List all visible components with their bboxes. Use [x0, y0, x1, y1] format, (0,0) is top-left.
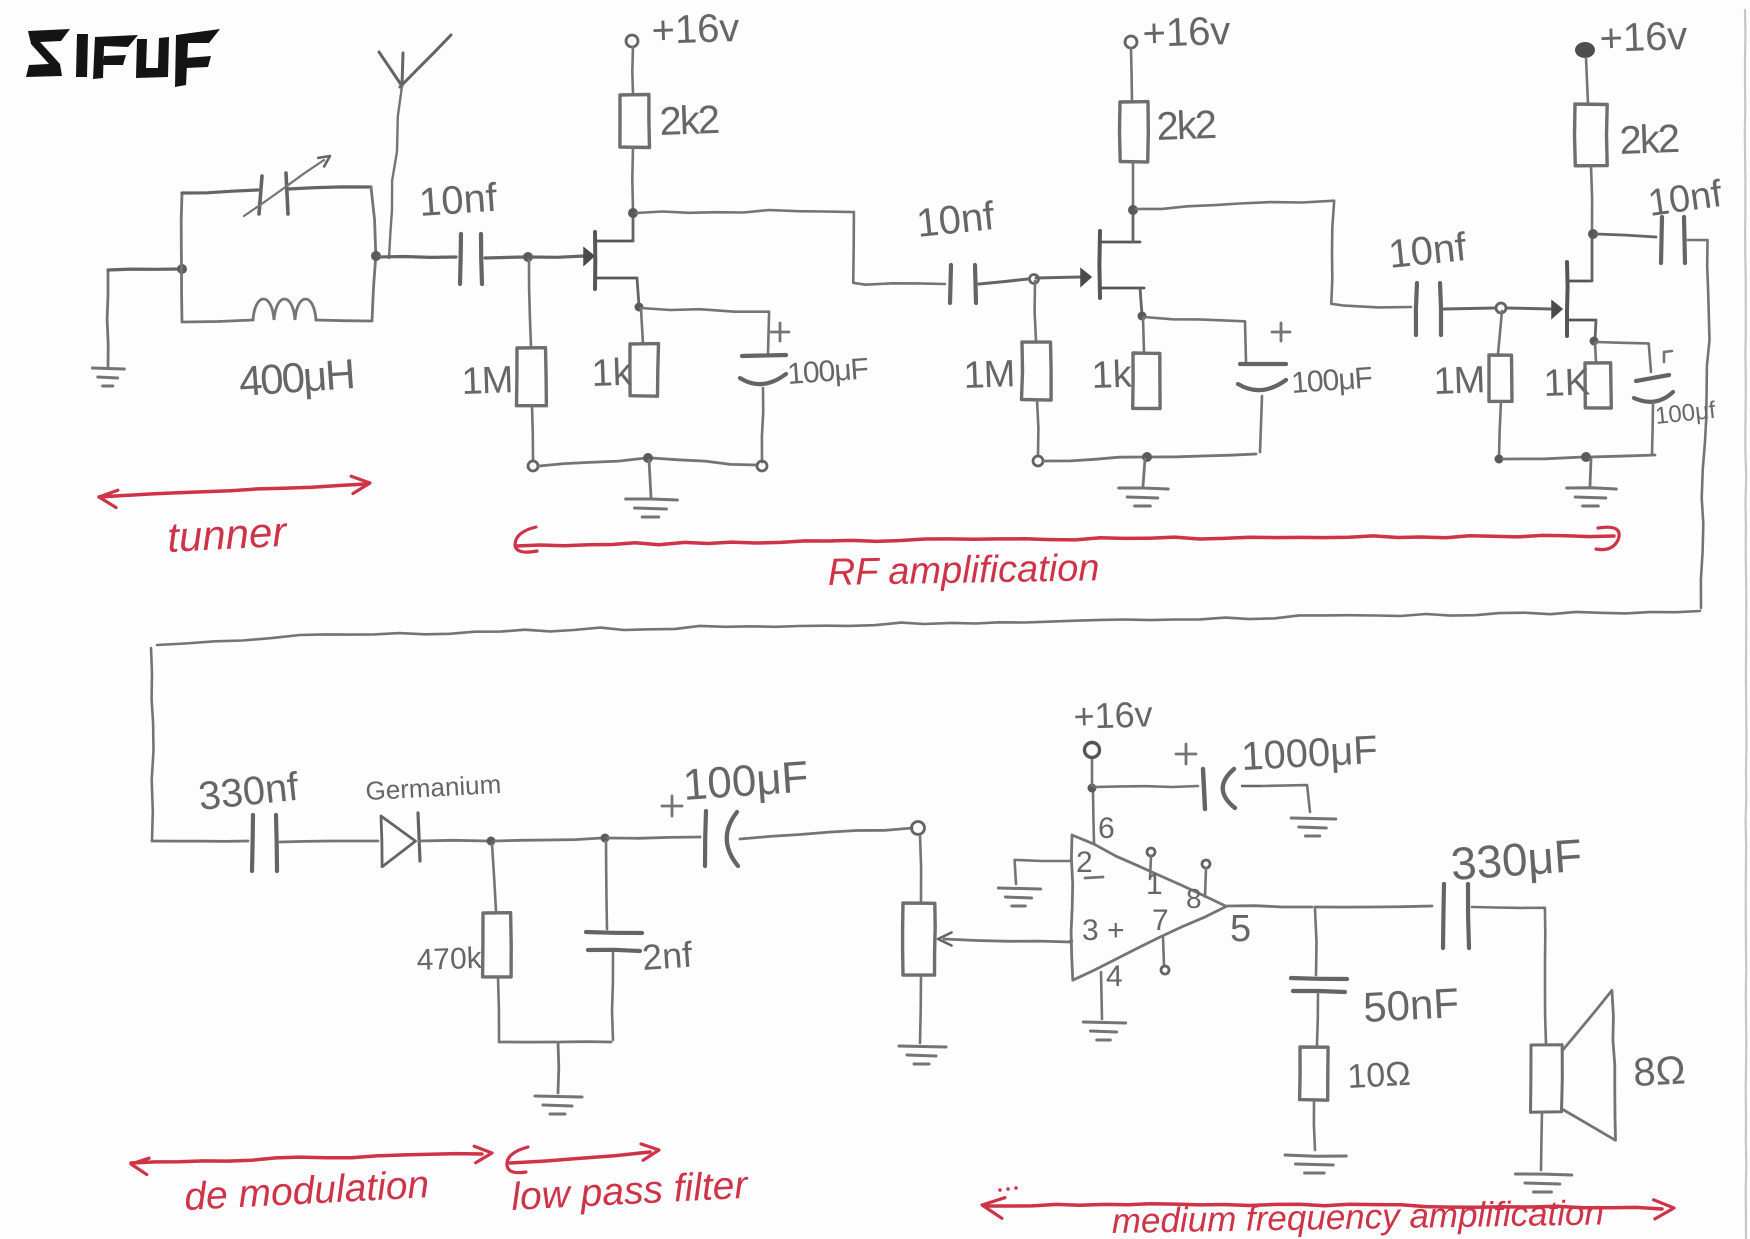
capacitor C4 10nf [950, 265, 951, 303]
node pot top [912, 822, 925, 835]
resistor R11 10ohm [1300, 1047, 1329, 1100]
resistor R3 1k [641, 309, 643, 344]
node lpf [601, 834, 610, 843]
svg-text:10nf: 10nf [418, 176, 500, 225]
node drain2 [1128, 205, 1138, 215]
resistor R5 1M [1035, 281, 1036, 341]
wire gate3 [1507, 308, 1551, 309]
inductor L1 [184, 320, 253, 322]
svg-text:10Ω: 10Ω [1346, 1055, 1411, 1096]
transistor Q2 JFET [1097, 231, 1102, 298]
wire C13 to pot node [740, 828, 912, 839]
node rail2 [1142, 452, 1152, 462]
svg-text:3 +: 3 + [1082, 914, 1125, 947]
svg-text:+16v: +16v [1142, 9, 1231, 56]
svg-text:tunner: tunner [166, 508, 289, 561]
node drain1 [628, 208, 638, 218]
feedback wire to detector [1688, 240, 1710, 608]
svg-text:1k: 1k [591, 352, 634, 395]
node tank output [371, 251, 381, 261]
ground stage1 [649, 460, 651, 497]
resistor R8 1M [1498, 311, 1502, 354]
svg-text:1M: 1M [963, 353, 1015, 397]
ground stage3 [1590, 459, 1591, 486]
svg-text:330μF: 330μF [1449, 829, 1584, 890]
svg-text:100μF: 100μF [1290, 361, 1373, 400]
node source2 [1138, 312, 1147, 321]
wire speaker to ground [1541, 1112, 1542, 1170]
wire source2 branch [1144, 317, 1246, 362]
node gate2 [1030, 275, 1039, 284]
+16V supply terminal T3 [1575, 42, 1595, 58]
svg-text:5: 5 [1230, 908, 1251, 950]
node output [1315, 906, 1432, 907]
transistor Q3 JFET [1565, 262, 1570, 336]
svg-text:10nf: 10nf [1386, 225, 1469, 277]
svg-text:+16v: +16v [651, 6, 740, 53]
wire drain3 to C10 [1596, 234, 1656, 237]
svg-text:8Ω: 8Ω [1632, 1048, 1686, 1095]
pin 1 [1147, 848, 1155, 856]
svg-text:+16v: +16v [1073, 693, 1153, 737]
svg-text:7: 7 [1152, 904, 1169, 937]
diode D1 Germanium [381, 816, 416, 867]
ground stage2 [1143, 459, 1145, 486]
svg-text:8: 8 [1186, 883, 1202, 914]
node source1 [635, 303, 644, 312]
wire T3 to R7 [1586, 58, 1588, 104]
ground LS1 [1515, 1174, 1571, 1175]
rail stage1 [528, 461, 538, 471]
antenna [379, 52, 402, 86]
wire lpf bottom rail [499, 1041, 556, 1044]
tank right wire [371, 187, 376, 321]
transistor Q1 JFET [593, 232, 597, 289]
wire T1 to R1 [631, 47, 634, 95]
wire drain2 to C7 [1136, 201, 1411, 308]
capacitor C12 2nf [606, 841, 607, 929]
node tank left [177, 264, 187, 274]
wire source1 branch [641, 308, 769, 354]
svg-text:2: 2 [1076, 846, 1093, 879]
wire pin2 ground [1015, 860, 1070, 884]
wire vcc to C14 [1095, 786, 1198, 787]
resistor R6 1k [1143, 318, 1144, 352]
capacitor C2 100uF [771, 331, 789, 334]
wire pin3 to pot [1070, 940, 1072, 943]
wire C1 to gate node [485, 257, 524, 258]
capacitor C10 10nf [1661, 217, 1662, 263]
svg-text:1000μF: 1000μF [1240, 728, 1379, 779]
rail stage3 [1495, 455, 1504, 464]
wire C4 to gate2 node [979, 279, 1028, 284]
svg-text:4: 4 [1106, 960, 1123, 993]
capacitor C15 330uF [1443, 884, 1444, 948]
svg-text:medium frequency amplification: medium frequency amplification [1111, 1193, 1604, 1239]
capacitor C14 1000uF [1176, 753, 1196, 756]
svg-text:1k: 1k [1091, 354, 1134, 397]
node vcc opamp [1088, 784, 1097, 793]
variable capacitor VC1 [182, 190, 258, 193]
node drain3 [1588, 229, 1598, 239]
tank left wire [180, 193, 184, 322]
ground VR1 [899, 1046, 946, 1047]
+16V supply terminal T1 [626, 35, 638, 47]
ground R11 [1285, 1155, 1346, 1156]
wire T2 to R4 [1131, 48, 1132, 102]
svg-text:2k2: 2k2 [659, 98, 720, 144]
resistor R2 1M [529, 260, 531, 347]
node gate3 [1496, 303, 1506, 313]
wire output [1227, 906, 1312, 907]
svg-text:100μF: 100μF [681, 752, 810, 810]
wire C14 to ground [1262, 785, 1310, 812]
capacitor C1 10nf [460, 234, 461, 284]
wire pin4 ground [1101, 972, 1102, 1019]
resistor R1 2k2 [620, 95, 650, 148]
wire R4 to drain2 [1132, 162, 1135, 208]
svg-text:6: 6 [1098, 812, 1115, 845]
svg-text:1M: 1M [461, 359, 513, 403]
potentiometer VR1 [920, 835, 921, 901]
+16V supply terminal T4 [1085, 743, 1100, 758]
red arrow medium frequency amplification [984, 1204, 1662, 1209]
wire source3 branch [1596, 342, 1651, 372]
svg-text:1: 1 [1146, 868, 1163, 901]
svg-text:2nf: 2nf [641, 934, 695, 978]
svg-text:50nF: 50nF [1362, 979, 1460, 1031]
logo SIFUF [26, 29, 220, 87]
red arrow de modulation [131, 1154, 482, 1163]
wire lpf to C13 [608, 837, 700, 838]
wire C15 to speaker [1472, 907, 1546, 1044]
paper edge right [1745, 10, 1747, 1239]
ground lpf [557, 1042, 561, 1093]
node demod [487, 837, 496, 846]
ground pin2 [998, 888, 1040, 889]
wire C7 to gate3 node [1444, 308, 1495, 309]
wire tank to C1 [378, 255, 456, 259]
resistor R9 1K [1595, 343, 1596, 362]
capacitor C7 10nf [1416, 283, 1417, 335]
red arrow low pass filter [510, 1152, 650, 1163]
wire C11 to D1 [280, 841, 378, 842]
wiper arrow VR1 [944, 939, 1070, 942]
svg-text:1K: 1K [1543, 361, 1591, 405]
node rail1 [643, 453, 653, 463]
node gate1 [523, 252, 533, 262]
svg-text:RF amplification: RF amplification [827, 547, 1099, 594]
speaker LS1 [1531, 1045, 1563, 1113]
svg-text:2k2: 2k2 [1156, 103, 1217, 149]
ground C14 [1291, 818, 1336, 819]
wire to +16v opamp [1091, 757, 1094, 786]
svg-text:100μF: 100μF [786, 352, 869, 391]
capacitor C5 100uF [1272, 331, 1290, 334]
node rail3 [1581, 452, 1591, 462]
wire demod to node lpf [494, 838, 602, 841]
wire D1 to node demod [420, 839, 488, 843]
svg-text:400μH: 400μH [237, 350, 355, 405]
wire to C11 330nf [152, 840, 248, 843]
+16V supply terminal T2 [1125, 36, 1137, 48]
red arrow tunner [99, 484, 366, 497]
wire gate1 [531, 256, 584, 257]
wire R1 to drain node [631, 147, 634, 211]
wire ground to tank [108, 269, 180, 270]
capacitor C13 100uF [662, 805, 682, 808]
resistor R7 2k2 [1575, 104, 1608, 166]
capacitor C11 330nf [252, 815, 253, 871]
node source3 [1590, 337, 1599, 346]
wire drain1 to C4 [636, 210, 945, 285]
resistor R4 2k2 [1120, 102, 1149, 162]
svg-text:470k: 470k [416, 942, 483, 977]
rail stage2 [1033, 456, 1043, 466]
svg-text:10nf: 10nf [914, 194, 997, 246]
resistor R10 470k [492, 844, 496, 911]
ground tuner [107, 271, 108, 367]
svg-text:2k2: 2k2 [1619, 117, 1680, 163]
red arrow RF amplification [516, 535, 1614, 546]
op-amp U1 [1071, 835, 1226, 980]
ground pin4 [1083, 1022, 1125, 1023]
capacitor C8 100uF [1663, 352, 1666, 362]
svg-text:+16v: +16v [1599, 14, 1688, 61]
svg-text:1M: 1M [1433, 359, 1485, 403]
wire gate2 [1036, 277, 1080, 278]
capacitor C16 50nF [1315, 909, 1317, 975]
pin 6 [1093, 790, 1094, 843]
wire R7 to drain3 [1591, 166, 1592, 232]
